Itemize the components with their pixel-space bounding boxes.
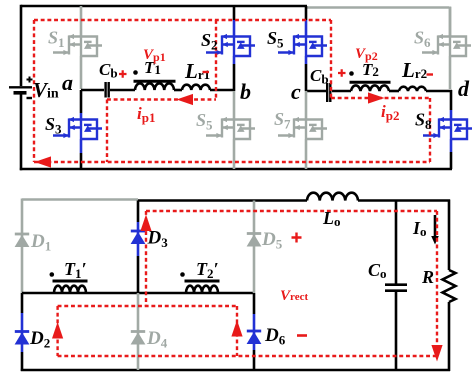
wire: Lr2 to node d [426, 90, 452, 110]
red dashed: y=306 horizontal [58, 305, 237, 307]
red arrow bottom-left pointing left [35, 156, 52, 167]
transistor S6 [422, 34, 471, 56]
svg-text:Co: Co [368, 260, 387, 281]
svg-text:S7: S7 [274, 109, 291, 132]
red dashed: bottom horizontal y=356 [58, 355, 437, 357]
svg-text:D1: D1 [30, 231, 51, 254]
wire: D6 leg [253, 293, 256, 314]
svg-text:ip2: ip2 [381, 102, 399, 123]
svg-text:D3: D3 [147, 228, 169, 251]
red minus at Lr2 [427, 73, 434, 75]
wire: S5gray leg from node b down [233, 91, 236, 120]
transformer T2 primary winding [351, 85, 389, 91]
wire: Cb1 to T1 [110, 89, 135, 92]
svg-text:D5: D5 [261, 229, 283, 252]
wire: node c to Cb2 [306, 90, 326, 93]
wire: S5 drain lead [305, 6, 308, 20]
wire: S3 leg from node a down [80, 90, 83, 113]
svg-text:S3: S3 [45, 114, 62, 137]
svg-text:S5: S5 [267, 28, 284, 51]
wire: node a to Cb1 [81, 89, 104, 92]
transistor S8 [450, 110, 453, 120]
svg-text:Vp1: Vp1 [143, 47, 166, 64]
wire: Co leg [395, 201, 398, 285]
svg-text:S6: S6 [414, 28, 431, 51]
red dashed: x=237 vertical [236, 306, 238, 356]
svg-text:Vin: Vin [33, 78, 59, 102]
T1' polarity dot [50, 272, 55, 277]
wire: top rail gray segment to S6 leg [307, 7, 450, 37]
red minus near D6 [297, 334, 307, 337]
black arrow Io [434, 215, 437, 237]
capacitor Co plates [385, 285, 407, 291]
wire: Lo to right corner [358, 200, 450, 271]
svg-text:d: d [458, 76, 470, 101]
capacitor Cb1 plates [106, 82, 109, 98]
battery Vin plates [9, 86, 32, 88]
transformer T1 primary winding [135, 83, 174, 90]
svg-text:R: R [421, 267, 434, 287]
wire: top rail black from D3 leg to Lo [138, 199, 307, 202]
wire: D4 leg gray [137, 293, 140, 370]
svg-text:T1′: T1′ [64, 259, 87, 281]
inductor Lr2 [399, 87, 426, 91]
transformer T1' secondary winding [54, 286, 86, 293]
red arrow down at x=437 [431, 345, 442, 362]
red dashed: x=331 vertical [330, 20, 332, 98]
transistor S2 [206, 34, 255, 56]
red dashed: ip1 loop top [107, 98, 216, 100]
svg-text:Cb: Cb [310, 66, 329, 87]
wire: left border vertical [20, 5, 23, 86]
red plus near D5 [292, 233, 302, 243]
svg-text:D2: D2 [29, 328, 50, 351]
wire: S1 source to node a [80, 56, 83, 89]
svg-text:Vrect: Vrect [280, 288, 308, 304]
diode D5 [247, 234, 262, 247]
svg-text:S1: S1 [48, 28, 65, 51]
diode D3 [131, 231, 146, 244]
red dashed: D3 vertical [145, 211, 147, 306]
diode D6 [247, 331, 262, 344]
wire: bottom rail of top circuit [20, 168, 452, 171]
red arrow up at x=237 [231, 320, 242, 337]
T2 polarity dot [349, 71, 354, 76]
red dashed loop: big loop top [34, 19, 331, 21]
red dashed: ip2 loop top [331, 97, 430, 99]
wire: top rail gray part [22, 199, 138, 294]
diode D4 [131, 332, 146, 345]
inductor Lr1 [182, 85, 210, 90]
battery minus sign [27, 97, 33, 99]
svg-text:Vp2: Vp2 [355, 46, 378, 63]
svg-text:b: b [240, 79, 251, 104]
battery plus sign [27, 77, 33, 83]
svg-text:Io: Io [412, 218, 427, 239]
wire: D3 leg [137, 201, 140, 223]
red dashed: ip2 right vertical [429, 98, 431, 162]
red dashed: ip1 loop left vertical [106, 100, 108, 163]
svg-text:c: c [291, 79, 301, 104]
diode D2 [15, 332, 30, 345]
wire: below R to bottom rail [448, 302, 451, 371]
red dashed: right vertical x=437 [436, 211, 438, 348]
svg-text:D4: D4 [146, 328, 168, 351]
wire: left leg D2 part [21, 293, 24, 313]
wire: S1 drain lead gray [80, 6, 83, 37]
capacitor Cb2 plates [327, 83, 330, 102]
transistor S1 [53, 34, 102, 56]
wire: S2 drain lead [233, 6, 236, 20]
red arrow ip2 pointing right [368, 92, 385, 103]
diode D1 [15, 234, 30, 247]
svg-text:Cb: Cb [99, 60, 118, 81]
wire: T1 to Lr1 [174, 89, 182, 92]
svg-text:T2′: T2′ [196, 259, 219, 281]
wire: bottom rail [21, 369, 450, 372]
wire: Lr1 to node b [210, 89, 233, 92]
red plus at Cb2 [338, 69, 346, 76]
transistor S5 (gray, below node b) [206, 117, 255, 139]
transistor S3 [53, 117, 102, 139]
svg-text:D6: D6 [264, 325, 286, 348]
wire: S6 drain lead gray [449, 7, 452, 36]
wire: Cb2 to T2 [332, 90, 351, 93]
red dashed: x=216 vertical [215, 20, 217, 100]
wire: S3 source to bottom rail [80, 139, 83, 153]
resistor R zigzag [443, 270, 456, 302]
wire: S7 leg from node c down [305, 91, 308, 120]
red dashed: bottom top loop horizontal y=211 [146, 210, 437, 212]
red dashed: x=57.6 vertical [56, 306, 58, 356]
red dashed: left vertical [33, 20, 35, 162]
T1 polarity dot [133, 70, 138, 75]
transformer T2' secondary winding [186, 286, 218, 293]
wire: T2 to Lr2 [389, 90, 399, 93]
wire: S5 source to node c [305, 56, 308, 64]
wire: top rail black [21, 5, 307, 8]
red dashed: bottom horizontal [34, 161, 430, 163]
inductor Lo [307, 193, 358, 201]
red plus at Cb1 [119, 70, 127, 77]
svg-text:S5: S5 [196, 110, 213, 133]
red arrow ip1 pointing left [177, 94, 194, 105]
transistor S7 [278, 117, 327, 139]
svg-text:S2: S2 [201, 30, 218, 53]
svg-text:Lo: Lo [322, 208, 341, 229]
wire: mid rail [22, 292, 254, 295]
wire: S2 source to node b [233, 56, 236, 64]
T2' polarity dot [180, 272, 185, 277]
svg-text:a: a [62, 70, 73, 95]
svg-text:ip1: ip1 [137, 104, 155, 125]
transistor S5 (blue, top) [278, 34, 327, 56]
wire: D5 leg gray [253, 201, 256, 294]
red arrow up at D3 [140, 215, 151, 232]
red arrow up at x=57.6 [52, 322, 63, 339]
red minus at Lr1 [203, 71, 210, 73]
svg-text:Lr2: Lr2 [401, 58, 427, 82]
